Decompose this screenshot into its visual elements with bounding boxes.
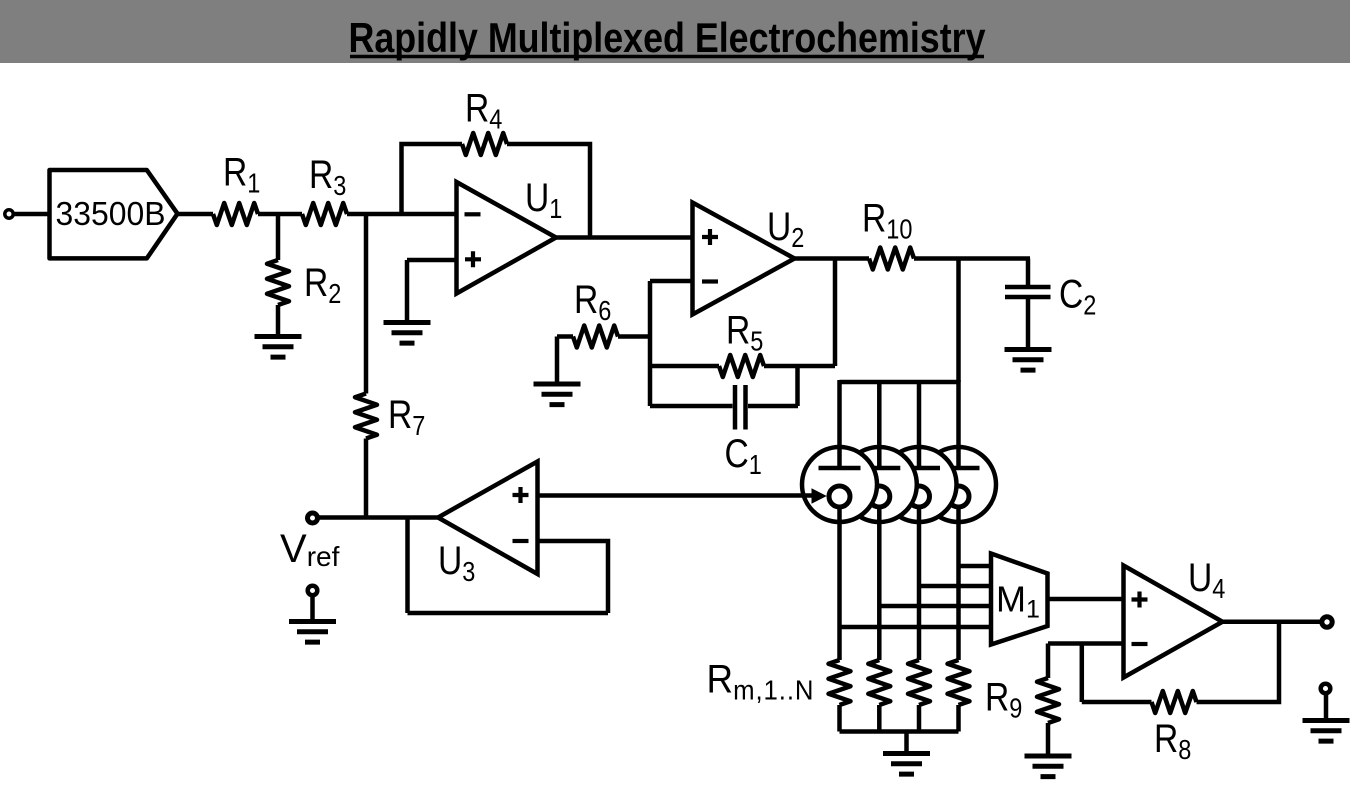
svg-text:C1: C1	[725, 431, 762, 480]
svg-text:Rapidly Multiplexed Electroche: Rapidly Multiplexed Electrochemistry	[349, 14, 987, 61]
svg-text:R10: R10	[862, 196, 912, 245]
svg-text:U4: U4	[1188, 555, 1225, 604]
svg-text:R9: R9	[985, 675, 1022, 724]
svg-text:R7: R7	[388, 392, 425, 441]
svg-text:U1: U1	[525, 175, 562, 224]
svg-text:R3: R3	[309, 152, 346, 201]
svg-text:R5: R5	[726, 308, 763, 357]
svg-text:R8: R8	[1154, 716, 1191, 765]
svg-text:R2: R2	[304, 260, 341, 309]
svg-text:R1: R1	[223, 150, 260, 199]
svg-text:C2: C2	[1059, 272, 1096, 321]
svg-text:R6: R6	[574, 277, 611, 326]
svg-text:Vref: Vref	[280, 527, 340, 572]
svg-text:33500B: 33500B	[56, 195, 166, 232]
svg-text:R4: R4	[465, 86, 502, 135]
svg-text:Rm,1..N: Rm,1..N	[707, 657, 815, 706]
svg-text:U3: U3	[438, 538, 475, 587]
svg-text:U2: U2	[767, 204, 804, 253]
